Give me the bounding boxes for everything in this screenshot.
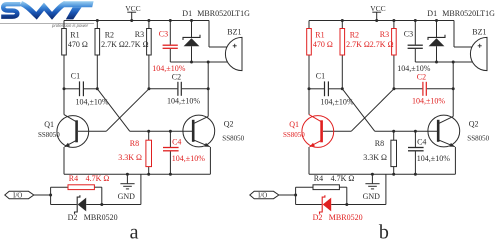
svg-text:R3: R3 (135, 30, 144, 39)
svg-text:SS8050: SS8050 (38, 131, 60, 139)
svg-text:VCC: VCC (370, 4, 385, 13)
svg-text:D1: D1 (427, 9, 437, 18)
svg-text:C4: C4 (172, 138, 181, 147)
svg-text:104,±10%: 104,±10% (172, 154, 205, 163)
svg-text:C4: C4 (417, 138, 426, 147)
svg-text:R8: R8 (375, 139, 384, 148)
svg-text:D2: D2 (68, 213, 78, 222)
svg-text:3.3K Ω: 3.3K Ω (363, 153, 387, 162)
svg-text:D2: D2 (313, 213, 323, 222)
svg-text:GND: GND (118, 192, 136, 201)
svg-text:SS8050: SS8050 (222, 134, 244, 142)
svg-text:b: b (379, 222, 389, 241)
svg-text:Q2: Q2 (224, 119, 234, 128)
svg-text:Q1: Q1 (289, 120, 299, 129)
svg-text:MBR0520: MBR0520 (84, 213, 118, 222)
svg-text:D1: D1 (182, 9, 192, 18)
svg-text:R3: R3 (380, 30, 389, 39)
svg-text:C1: C1 (316, 72, 325, 81)
svg-text:R2: R2 (105, 31, 114, 40)
svg-text:C3: C3 (159, 30, 168, 39)
svg-text:GND: GND (363, 192, 381, 201)
svg-text:MBR0520: MBR0520 (329, 213, 363, 222)
svg-text:VCC: VCC (125, 4, 140, 13)
svg-text:I/O: I/O (258, 192, 267, 200)
svg-text:470 Ω: 470 Ω (313, 40, 333, 49)
svg-text:3.3K Ω: 3.3K Ω (118, 153, 142, 162)
svg-text:MBR0520LT1G: MBR0520LT1G (442, 9, 495, 18)
svg-text:SS8050: SS8050 (467, 134, 489, 142)
svg-text:104,±10%: 104,±10% (76, 98, 109, 107)
svg-text:R1: R1 (70, 31, 79, 40)
svg-text:470 Ω: 470 Ω (68, 40, 88, 49)
svg-text:C1: C1 (71, 72, 80, 81)
svg-text:Q1: Q1 (44, 120, 54, 129)
svg-text:2.7K Ω: 2.7K Ω (370, 40, 394, 49)
svg-text:2.7K Ω: 2.7K Ω (101, 40, 125, 49)
svg-text:BZ1: BZ1 (472, 28, 486, 37)
svg-text:C3: C3 (404, 30, 413, 39)
svg-text:BZ1: BZ1 (227, 28, 241, 37)
svg-text:104,±10%: 104,±10% (321, 98, 354, 107)
svg-text:2.7K Ω: 2.7K Ω (346, 40, 370, 49)
svg-text:R8: R8 (130, 139, 139, 148)
svg-text:R4: R4 (314, 174, 323, 183)
svg-text:I/O: I/O (13, 192, 22, 200)
svg-text:Q2: Q2 (469, 119, 479, 128)
svg-text:2.7K Ω: 2.7K Ω (125, 40, 149, 49)
svg-text:a: a (130, 222, 139, 241)
svg-text:R2: R2 (350, 31, 359, 40)
svg-text:SS8050: SS8050 (283, 131, 305, 139)
svg-text:R1: R1 (315, 31, 324, 40)
svg-text:C2: C2 (417, 72, 426, 81)
svg-text:4.7K Ω: 4.7K Ω (86, 174, 110, 183)
svg-text:104,±10%: 104,±10% (412, 96, 445, 105)
svg-text:MBR0520LT1G: MBR0520LT1G (197, 9, 250, 18)
svg-text:104,±10%: 104,±10% (417, 154, 450, 163)
svg-text:104,±10%: 104,±10% (167, 96, 200, 105)
svg-text:profession is power: profession is power (51, 23, 89, 28)
svg-text:C2: C2 (172, 72, 181, 81)
svg-text:4.7K Ω: 4.7K Ω (331, 174, 355, 183)
svg-text:R4: R4 (69, 174, 78, 183)
